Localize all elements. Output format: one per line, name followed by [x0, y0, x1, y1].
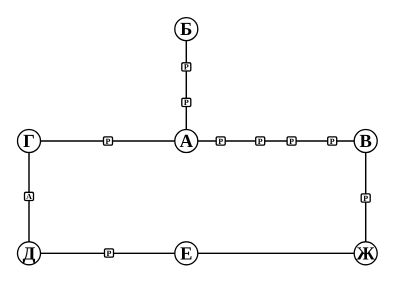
svg-text:В: В	[360, 132, 372, 152]
svg-text:Г: Г	[23, 132, 35, 152]
label Р (wire А-В 1)	[216, 137, 225, 146]
node Б	[175, 18, 198, 41]
wire Б-А	[185, 41, 187, 130]
wire Д-Е	[41, 252, 175, 254]
label Р (wire А-В 2)	[256, 137, 265, 146]
svg-text:Б: Б	[180, 20, 192, 40]
node В	[354, 130, 377, 153]
svg-text:Р: Р	[106, 137, 111, 146]
label Р (wire А-В 4)	[328, 137, 337, 146]
label Р (wire Д-Е)	[105, 249, 114, 258]
svg-text:Е: Е	[180, 244, 192, 264]
label Р (wire А-В 3)	[287, 137, 296, 146]
svg-text:Д: Д	[23, 244, 36, 264]
node Д	[18, 242, 41, 265]
node Е	[175, 242, 198, 265]
svg-text:Р: Р	[363, 194, 368, 203]
node А	[175, 130, 198, 153]
svg-text:Р: Р	[218, 137, 223, 146]
svg-text:Р: Р	[184, 63, 189, 72]
wire Г-А	[41, 140, 175, 142]
svg-text:Р: Р	[107, 249, 112, 258]
svg-text:Р: Р	[258, 137, 263, 146]
label Р (wire В-Ж)	[361, 194, 370, 203]
wire А-В	[198, 140, 354, 142]
label Р (wire Б-А upper)	[182, 63, 191, 72]
svg-text:А: А	[26, 192, 32, 201]
wire Г-Д	[28, 153, 30, 242]
wire В-Ж	[365, 153, 367, 242]
label Р (wire Б-А lower)	[182, 98, 191, 107]
wire Е-Ж	[198, 252, 355, 254]
svg-text:Р: Р	[184, 98, 189, 107]
label А (wire Г-Д)	[25, 192, 34, 201]
svg-text:Ж: Ж	[357, 244, 376, 264]
svg-text:Р: Р	[289, 137, 294, 146]
svg-text:А: А	[180, 132, 194, 152]
svg-text:Р: Р	[330, 137, 335, 146]
node Г	[18, 130, 41, 153]
label Р (wire Г-А)	[104, 137, 113, 146]
node Ж	[354, 242, 377, 265]
